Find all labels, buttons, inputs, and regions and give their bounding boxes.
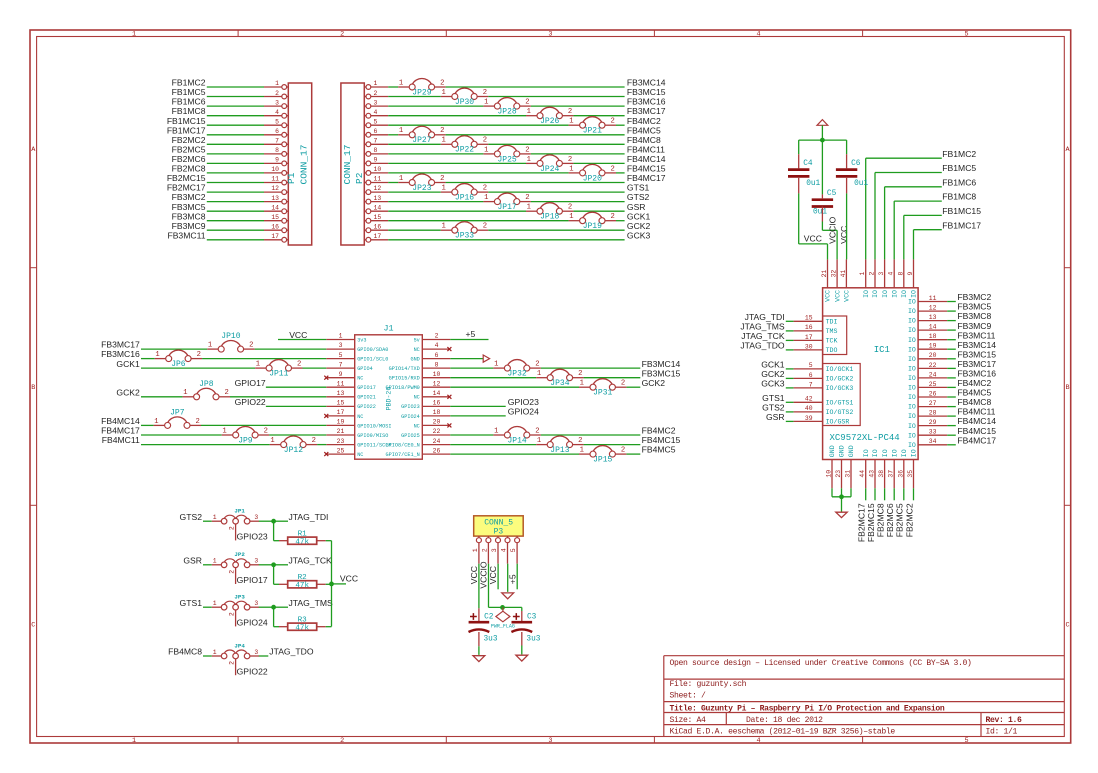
svg-text:TMS: TMS: [826, 328, 838, 335]
svg-text:43: 43: [869, 470, 876, 478]
svg-text:VCC: VCC: [839, 226, 849, 244]
svg-text:FB4MC2: FB4MC2: [627, 116, 661, 126]
capacitor C3 3u3 polarized: [511, 613, 540, 643]
svg-text:2: 2: [228, 661, 235, 665]
svg-text:GCK3: GCK3: [627, 230, 651, 240]
svg-text:Date: 18 dec 2012: Date: 18 dec 2012: [746, 716, 823, 725]
svg-text:5: 5: [374, 118, 378, 125]
svg-text:FB4MC8: FB4MC8: [957, 397, 991, 407]
svg-text:FB3MC5: FB3MC5: [172, 202, 206, 212]
svg-text:1: 1: [270, 437, 274, 445]
svg-text:FB3MC17: FB3MC17: [957, 359, 996, 369]
svg-text:27: 27: [929, 400, 937, 407]
svg-text:FB4MC15: FB4MC15: [957, 426, 996, 436]
wire net FB1MC15 to IC1: [904, 206, 981, 259]
svg-text:2: 2: [228, 612, 235, 616]
IC1 right pin 25 IO net FB4MC2: [908, 378, 992, 392]
svg-text:1: 1: [374, 80, 378, 87]
svg-text:2: 2: [297, 361, 301, 369]
svg-text:FB3MC5: FB3MC5: [957, 302, 991, 312]
svg-text:15: 15: [374, 214, 382, 221]
label net FB4MC17: [627, 173, 666, 183]
svg-text:GPIO10/MOSI: GPIO10/MOSI: [357, 423, 391, 429]
IC1 left pin 39 IO/GSR net GSR: [766, 412, 849, 426]
svg-text:20: 20: [433, 419, 441, 426]
svg-text:12: 12: [271, 185, 279, 192]
svg-text:5: 5: [339, 352, 343, 359]
svg-text:FB2MC6: FB2MC6: [172, 154, 206, 164]
svg-text:2: 2: [435, 333, 439, 340]
svg-text:FB4MC8: FB4MC8: [627, 135, 661, 145]
svg-text:23: 23: [835, 470, 842, 478]
IC1 right pin 20 IO net FB3MC15: [908, 349, 996, 363]
svg-text:FB1MC17: FB1MC17: [942, 220, 981, 230]
svg-text:1: 1: [441, 137, 445, 145]
label GPIO23 at J1 pin16: [450, 397, 539, 407]
label net FB4MC11: [627, 145, 665, 155]
svg-text:IO/GCK3: IO/GCK3: [826, 385, 854, 392]
jumper JP19: [569, 212, 616, 231]
wire to C4: [798, 140, 800, 168]
label net JTAG_TCK: [289, 555, 333, 565]
svg-text:1: 1: [537, 437, 541, 445]
ground symbol below C3: [516, 655, 528, 661]
P3 pin 3: [491, 536, 501, 564]
svg-text:IO/GTS2: IO/GTS2: [826, 409, 854, 416]
svg-text:+5: +5: [466, 329, 476, 339]
IC1 bottom pins 10,23,31,44,43,38,37,36,35: [826, 445, 918, 488]
svg-text:13: 13: [374, 195, 382, 202]
svg-text:1: 1: [132, 737, 136, 745]
power flag PWR_FLAG: [491, 607, 515, 629]
svg-text:FB4MC14: FB4MC14: [627, 154, 666, 164]
svg-text:IO: IO: [891, 449, 898, 457]
wire P2 pin 8 segments: [364, 147, 624, 156]
svg-text:VCC: VCC: [488, 566, 498, 584]
IC1 right pin 24 IO net FB3MC16: [908, 369, 996, 383]
svg-text:Sheet: /: Sheet: /: [670, 692, 707, 701]
svg-text:IO: IO: [882, 290, 889, 298]
label GPIO24 on JP3 pin2: [237, 618, 268, 628]
svg-text:FB2MC2: FB2MC2: [904, 503, 914, 537]
wire P2 pin 2 segments: [364, 90, 624, 99]
svg-text:IO: IO: [911, 449, 918, 457]
wire P2 pin 11 segments: [364, 176, 624, 185]
svg-text:1: 1: [537, 370, 541, 378]
svg-text:1: 1: [183, 389, 187, 397]
svg-text:GCK2: GCK2: [627, 221, 651, 231]
svg-text:8: 8: [897, 272, 904, 276]
svg-text:4: 4: [756, 737, 760, 745]
wire net FB2MC6 to P1 pin 9: [172, 154, 289, 166]
svg-text:11: 11: [337, 380, 345, 387]
svg-text:GPIO22: GPIO22: [357, 404, 376, 410]
connector P1 CONN_17 body: [286, 83, 312, 245]
svg-text:1: 1: [213, 514, 217, 521]
svg-text:1: 1: [213, 649, 217, 656]
connector P3 CONN_5 body: [474, 516, 524, 537]
wire J1 right row FB4MC5: [450, 453, 640, 455]
svg-text:FB3MC15: FB3MC15: [627, 87, 666, 97]
svg-text:38: 38: [878, 470, 885, 478]
svg-text:C: C: [31, 622, 35, 630]
svg-text:GCK1: GCK1: [761, 360, 785, 370]
svg-text:FB4MC15: FB4MC15: [642, 435, 681, 445]
wire FB3MC16 row: [101, 349, 326, 359]
label net FB3MC14: [642, 359, 681, 369]
svg-text:Id: 1/1: Id: 1/1: [986, 728, 1018, 737]
wire net FB1MC5 to P1 pin 2: [172, 87, 289, 99]
jumper JP21: [569, 117, 616, 136]
svg-text:3: 3: [254, 649, 258, 656]
svg-text:26: 26: [433, 447, 441, 454]
svg-text:11: 11: [929, 295, 937, 302]
wire net FB2MC15 to P1 pin 11: [167, 173, 288, 185]
svg-text:FB3MC8: FB3MC8: [172, 211, 206, 221]
svg-text:5: 5: [275, 118, 279, 125]
svg-text:VCC: VCC: [469, 566, 479, 584]
svg-text:IO: IO: [908, 394, 916, 401]
svg-text:2: 2: [568, 204, 572, 212]
svg-text:KiCad E.D.A. eeschema (2012–0: KiCad E.D.A. eeschema (2012–01–19 BZR 32…: [670, 728, 896, 737]
svg-text:5: 5: [965, 30, 969, 38]
IC1 right pin 34 IO net FB4MC17: [908, 435, 996, 449]
svg-text:1: 1: [441, 223, 445, 231]
jumper JP33: [441, 222, 488, 241]
jumper JP23: [398, 174, 445, 193]
svg-text:FB4MC17: FB4MC17: [101, 426, 140, 436]
IC1 right pin 13 IO net FB3MC8: [908, 311, 992, 325]
svg-text:B: B: [1065, 384, 1069, 392]
svg-text:1: 1: [580, 447, 584, 455]
label +5 at J1 pin2: [450, 329, 488, 339]
svg-text:2: 2: [525, 99, 529, 107]
IC1 left pin 40 IO/GTS2 net GTS2: [762, 403, 853, 417]
wire C3 to ground: [521, 632, 523, 654]
svg-text:FB1MC15: FB1MC15: [942, 206, 981, 216]
svg-text:+5: +5: [507, 574, 517, 584]
svg-text:16: 16: [433, 400, 441, 407]
svg-text:5: 5: [809, 362, 813, 369]
wire net FB1MC6 to P1 pin 3: [172, 97, 289, 109]
svg-text:GPIO25: GPIO25: [401, 433, 420, 439]
svg-text:2: 2: [483, 223, 487, 231]
wire VCCIO node to caps: [489, 607, 522, 611]
svg-text:IO: IO: [901, 449, 908, 457]
svg-text:1: 1: [275, 80, 279, 87]
label net GTS1: [627, 183, 650, 193]
svg-text:1: 1: [859, 272, 866, 276]
svg-text:17: 17: [337, 409, 345, 416]
svg-text:4: 4: [275, 109, 279, 116]
svg-text:2: 2: [264, 427, 268, 435]
svg-text:GPIO4: GPIO4: [357, 366, 373, 372]
svg-text:FB3MC17: FB3MC17: [627, 106, 666, 116]
svg-text:GCK3: GCK3: [761, 379, 785, 389]
wire J1 right row FB3MC14: [450, 367, 640, 369]
svg-text:2: 2: [228, 526, 235, 530]
svg-text:1: 1: [208, 341, 212, 349]
svg-text:JP31: JP31: [593, 389, 612, 398]
jumper JP12: [270, 436, 317, 455]
svg-text:2: 2: [228, 570, 235, 574]
svg-text:2: 2: [621, 380, 625, 388]
svg-text:19: 19: [929, 343, 937, 350]
svg-text:GTS2: GTS2: [762, 403, 785, 413]
svg-text:NC: NC: [357, 376, 363, 382]
svg-text:FB4MC17: FB4MC17: [627, 173, 666, 183]
svg-text:3u3: 3u3: [484, 636, 498, 644]
wire P2 pin 13 segments: [364, 195, 624, 204]
svg-text:15: 15: [805, 315, 813, 322]
svg-text:IO: IO: [908, 366, 916, 373]
power symbol VCC arrow: [817, 120, 828, 141]
svg-text:2: 2: [535, 427, 539, 435]
svg-text:2: 2: [196, 418, 200, 426]
wire P2 pin 12 segments: [364, 185, 624, 194]
label GPIO22 on JP4 pin2: [237, 666, 268, 676]
label net FB4MC15: [627, 164, 666, 174]
svg-text:18: 18: [433, 409, 441, 416]
svg-text:40: 40: [805, 405, 813, 412]
svg-text:13: 13: [271, 195, 279, 202]
svg-text:1: 1: [569, 118, 573, 126]
svg-text:IO: IO: [863, 290, 870, 298]
svg-text:FB3MC9: FB3MC9: [957, 321, 991, 331]
svg-text:8: 8: [435, 361, 439, 368]
svg-text:31: 31: [845, 470, 852, 478]
wire VCC rail vertical JTAG pullups: [329, 541, 346, 627]
wire P2 pin 15 segments: [364, 214, 624, 223]
label net GCK2: [627, 221, 651, 231]
svg-text:GPIO17: GPIO17: [235, 378, 266, 388]
wire net FB1MC17 to IC1: [914, 220, 982, 259]
svg-text:JTAG_TCK: JTAG_TCK: [741, 331, 785, 341]
svg-text:32: 32: [831, 270, 838, 278]
label net JTAG_TDO: [269, 647, 314, 657]
jumper JP22: [441, 136, 488, 155]
svg-text:FB4MC11: FB4MC11: [957, 407, 995, 417]
svg-text:2: 2: [225, 389, 229, 397]
svg-text:1: 1: [399, 175, 403, 183]
label net GTS2: [627, 192, 650, 202]
svg-text:4: 4: [374, 109, 378, 116]
svg-text:FB2MC6: FB2MC6: [885, 503, 895, 537]
svg-text:3: 3: [254, 514, 258, 521]
svg-text:1: 1: [222, 427, 226, 435]
svg-text:2: 2: [312, 437, 316, 445]
svg-text:14: 14: [374, 204, 382, 211]
jumper JP14: [493, 426, 540, 445]
label net FB3MC16: [627, 97, 666, 107]
wire J1 right row FB4MC2: [450, 434, 640, 436]
svg-text:VCC: VCC: [804, 233, 822, 243]
svg-text:0u1: 0u1: [854, 180, 868, 188]
svg-text:17: 17: [271, 233, 279, 240]
jumper JP26: [526, 107, 573, 126]
resistor R3 47k: [279, 617, 326, 633]
resistor R2 47k: [279, 574, 326, 590]
svg-text:30: 30: [805, 343, 813, 350]
svg-text:3: 3: [374, 99, 378, 106]
svg-text:IO: IO: [908, 327, 916, 334]
svg-text:IO/GTS1: IO/GTS1: [826, 399, 854, 406]
wire P2 pin 10 segments: [364, 166, 624, 175]
svg-text:18: 18: [929, 333, 937, 340]
wire P2 pin 4 segments: [364, 109, 624, 118]
label net FB4MC8: [168, 647, 212, 657]
IC1 right pin 14 IO net FB3MC9: [908, 321, 992, 334]
svg-text:17: 17: [374, 233, 382, 240]
svg-text:2: 2: [611, 165, 615, 173]
wire net FB2MC2 from IC1 bottom: [904, 488, 914, 537]
svg-text:2: 2: [249, 341, 253, 349]
svg-text:9: 9: [374, 157, 378, 164]
label GPIO17 to J1 pin11: [235, 378, 327, 388]
svg-text:FB4MC5: FB4MC5: [642, 445, 676, 455]
svg-text:1: 1: [213, 558, 217, 565]
wire junction down to R3: [274, 607, 279, 627]
wire net FB1MC8 to P1 pin 4: [172, 106, 289, 118]
svg-text:IO: IO: [908, 337, 916, 344]
label net FB4MC2: [642, 426, 676, 436]
svg-text:GPIO0/SDA0: GPIO0/SDA0: [357, 347, 388, 353]
IC1 left pin 16 TMS net JTAG_TMS: [740, 322, 837, 336]
label net JTAG_TDI: [289, 512, 329, 522]
jumper JP1: [212, 508, 259, 541]
svg-text:1: 1: [339, 333, 343, 340]
svg-text:IO: IO: [863, 449, 870, 457]
svg-text:2: 2: [535, 361, 539, 369]
svg-text:IO: IO: [911, 290, 918, 298]
svg-text:JP15: JP15: [593, 456, 612, 465]
svg-text:3u3: 3u3: [526, 636, 540, 644]
svg-text:12: 12: [433, 380, 441, 387]
IC1 right pin 11 IO net FB3MC2: [908, 292, 992, 306]
svg-text:TDO: TDO: [826, 347, 838, 354]
label VCC vertical P3 pin3: [488, 564, 498, 590]
svg-text:5: 5: [965, 737, 969, 745]
svg-text:13: 13: [337, 390, 345, 397]
svg-text:FB2MC8: FB2MC8: [875, 503, 885, 537]
connector P2 CONN_17 body: [341, 83, 365, 245]
svg-text:7: 7: [374, 138, 378, 145]
svg-text:JTAG_TDI: JTAG_TDI: [289, 512, 329, 522]
svg-text:IO/GSR: IO/GSR: [826, 419, 850, 426]
svg-text:FB1MC5: FB1MC5: [942, 163, 976, 173]
svg-text:5: 5: [510, 548, 517, 552]
wire IC1 GND pins junction: [832, 488, 851, 512]
IC1 left pin 7 IO/GCK3 net GCK3: [761, 379, 853, 393]
IC1 right pin 19 IO net FB3MC14: [908, 340, 996, 354]
svg-text:14: 14: [929, 324, 937, 331]
svg-text:IO/GCK2: IO/GCK2: [826, 376, 854, 383]
wire R1 to VCC rail: [326, 540, 332, 542]
label VCCIO vertical P3 pin2: [479, 561, 489, 607]
svg-text:IO: IO: [908, 413, 916, 420]
wire FB4MC11 row: [102, 435, 327, 445]
svg-text:FB4MC17: FB4MC17: [957, 435, 996, 445]
svg-text:35: 35: [907, 470, 914, 478]
svg-text:GSR: GSR: [766, 412, 785, 422]
svg-text:FB2MC5: FB2MC5: [172, 145, 206, 155]
svg-text:1: 1: [527, 204, 531, 212]
label net FB4MC15: [642, 435, 681, 445]
jumper JP31: [579, 379, 626, 398]
svg-text:GPIO17: GPIO17: [357, 385, 376, 391]
svg-text:NC: NC: [357, 414, 363, 420]
IC1 left pin 15 TDI net JTAG_TDI: [745, 312, 838, 326]
svg-text:2: 2: [869, 272, 876, 276]
svg-text:VCCIO: VCCIO: [827, 216, 837, 244]
svg-text:IO: IO: [908, 346, 916, 353]
svg-text:IO: IO: [908, 308, 916, 315]
svg-text:TCK: TCK: [826, 338, 838, 345]
svg-text:16: 16: [805, 324, 813, 331]
svg-text:FB1MC5: FB1MC5: [172, 87, 206, 97]
svg-text:B: B: [31, 384, 35, 392]
P3 pin 4: [501, 536, 511, 564]
IC1 right pin 33 IO net FB4MC15: [908, 426, 996, 440]
wire R3 to VCC rail: [326, 626, 332, 628]
svg-text:GPIO1/SCL0: GPIO1/SCL0: [357, 357, 388, 363]
wire VCC rail horizontal: [799, 139, 847, 141]
svg-text:JP10: JP10: [221, 332, 240, 341]
label net FB4MC5: [642, 445, 676, 455]
svg-text:CONN_17: CONN_17: [298, 145, 309, 185]
svg-text:JP3: JP3: [234, 594, 245, 601]
wire P2 pin 7 segments: [364, 138, 624, 147]
label VCCIO vertical: [827, 216, 837, 244]
svg-text:9: 9: [275, 157, 279, 164]
svg-text:FB4MC2: FB4MC2: [642, 426, 676, 436]
wire GCK2 row: [116, 387, 326, 397]
svg-text:2: 2: [621, 447, 625, 455]
label net GCK3: [627, 230, 651, 240]
svg-text:GPIO18/PWM0: GPIO18/PWM0: [386, 385, 420, 391]
svg-text:JP1: JP1: [234, 508, 245, 515]
wire C5 to IC1 pin 32: [822, 207, 837, 260]
svg-text:FB4MC5: FB4MC5: [957, 388, 991, 398]
wire P3 pin4 to ground: [507, 564, 509, 592]
wire net FB2MC5 to P1 pin 8: [172, 145, 289, 157]
svg-text:11: 11: [271, 176, 279, 183]
svg-text:GPIO21: GPIO21: [357, 395, 376, 401]
svg-text:GPIO7/CE1_N: GPIO7/CE1_N: [386, 452, 420, 458]
svg-text:5v: 5v: [414, 337, 420, 343]
label +5 vertical P3 pin5: [507, 564, 517, 590]
wire C6 to IC1 pin 41: [846, 178, 848, 260]
svg-text:TDI: TDI: [826, 318, 838, 325]
svg-text:JP12: JP12: [284, 446, 303, 455]
svg-text:2: 2: [483, 89, 487, 97]
svg-text:10: 10: [826, 470, 833, 478]
svg-text:FB1MC6: FB1MC6: [942, 177, 976, 187]
IC1 right pin 22 IO net FB3MC17: [908, 359, 996, 373]
jumper JP11: [255, 360, 302, 379]
svg-text:GND: GND: [839, 445, 846, 457]
wire C4 to VCC label run: [799, 178, 828, 260]
svg-text:VCC: VCC: [340, 574, 358, 584]
svg-text:4: 4: [501, 548, 508, 552]
title block rev text: [986, 716, 1023, 725]
svg-text:4: 4: [888, 272, 895, 276]
svg-text:CONN_5: CONN_5: [484, 519, 513, 528]
label VCC vertical near pin 41: [839, 226, 849, 244]
svg-text:36: 36: [897, 470, 904, 478]
svg-text:GPIO22: GPIO22: [235, 397, 266, 407]
svg-text:XC9572XL-PC44: XC9572XL-PC44: [830, 433, 900, 443]
